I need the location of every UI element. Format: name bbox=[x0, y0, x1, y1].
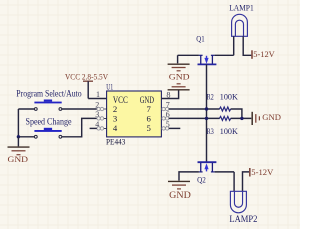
svg-text:R2: R2 bbox=[207, 92, 214, 101]
svg-text:U1: U1 bbox=[106, 82, 113, 91]
power port: 5-12V bottom bbox=[250, 167, 274, 177]
svg-text:5-12V: 5-12V bbox=[251, 167, 274, 177]
wire: R2 right to corner bbox=[231, 109, 242, 118]
svg-text:6: 6 bbox=[147, 113, 152, 123]
wire: Q1 drain to LAMP1 bbox=[215, 54, 234, 56]
wire: pin8 to earth bbox=[161, 90, 178, 98]
svg-text:GND: GND bbox=[169, 190, 191, 200]
svg-text:VCC 2.8-5.5V: VCC 2.8-5.5V bbox=[65, 72, 109, 82]
svg-text:100K: 100K bbox=[220, 127, 238, 136]
svg-text:LAMP1: LAMP1 bbox=[229, 3, 254, 13]
svg-text:3: 3 bbox=[113, 113, 117, 123]
svg-text:GND: GND bbox=[262, 113, 281, 122]
wire: Q2 drain to LAMP2 bbox=[215, 171, 235, 173]
pin 4 bubbles bbox=[97, 127, 100, 130]
wire: pin7 to R2 node bbox=[169, 108, 220, 110]
pin 5 stub bbox=[169, 127, 181, 129]
wire: LAMP2 left leg bbox=[233, 172, 235, 191]
wire: VCC to pin1 bbox=[88, 98, 107, 100]
svg-text:5: 5 bbox=[147, 123, 151, 133]
pushbutton S2 Speed Change bbox=[34, 128, 61, 138]
transistor Q1 (N-MOSFET) bbox=[198, 55, 217, 64]
wire: Q2 gate to earth bbox=[179, 172, 199, 181]
wire: Q1 gate to earth bbox=[178, 54, 199, 56]
svg-text:R3: R3 bbox=[207, 127, 214, 136]
node: R2 junction bbox=[205, 107, 208, 110]
svg-text:PE443: PE443 bbox=[106, 137, 125, 147]
pin 4 stub bbox=[90, 127, 97, 129]
ground: pin8 inverted earth bbox=[168, 84, 190, 90]
resistor R2 bbox=[219, 107, 230, 111]
wire: button1 right lead to pin2 bbox=[62, 108, 97, 110]
ground: bottom-left earth bbox=[8, 137, 30, 164]
wire: pin6 to R3 node bbox=[169, 117, 220, 119]
pin 7 bubbles bbox=[162, 107, 165, 110]
resistor R3 bbox=[219, 116, 230, 120]
power port: VCC 2.8-5.5V bbox=[65, 72, 109, 99]
power port: 5-12V top bbox=[252, 49, 276, 59]
node: right junction bbox=[240, 117, 243, 120]
transistor Q2 (N-MOSFET, flipped) bbox=[198, 162, 217, 172]
lamp LAMP1 bbox=[232, 14, 248, 36]
ground: top earth on Q1 gate bbox=[168, 55, 190, 71]
ground: right sideways earth bbox=[252, 112, 281, 125]
pin 3 bubbles bbox=[97, 117, 100, 120]
wire: button2 right lead with jog up to pin3 bbox=[62, 118, 97, 136]
svg-text:Q2: Q2 bbox=[197, 176, 206, 185]
pushbutton S1 Program Select/Auto bbox=[34, 100, 61, 111]
node: R3 junction bbox=[205, 117, 208, 120]
svg-text:5-12V: 5-12V bbox=[253, 49, 275, 59]
ground: bottom-middle earth bbox=[168, 181, 191, 199]
node: rail-GND junction bbox=[17, 135, 20, 138]
wire: R3 right to GND bbox=[231, 117, 252, 119]
svg-text:4: 4 bbox=[113, 123, 118, 133]
svg-text:GND: GND bbox=[169, 72, 190, 82]
svg-text:GND: GND bbox=[8, 155, 29, 164]
svg-text:100K: 100K bbox=[220, 92, 238, 101]
svg-text:Speed Change: Speed Change bbox=[26, 116, 72, 126]
wire: button2 left lead bbox=[18, 136, 34, 138]
svg-text:1: 1 bbox=[96, 90, 100, 99]
wire: Q1 source down to Q2 bbox=[206, 64, 208, 162]
pin 6 bubbles bbox=[162, 117, 165, 120]
lamp LAMP2 bbox=[230, 191, 246, 213]
IC U1 PE443 body bbox=[107, 91, 162, 137]
wire: button1 left lead bbox=[18, 108, 34, 110]
wire: LAMP1 right leg to 5-12V bbox=[243, 36, 251, 55]
wire: LAMP1 left leg bbox=[233, 36, 235, 55]
pin 2 bubbles bbox=[97, 107, 169, 130]
svg-text:LAMP2: LAMP2 bbox=[229, 214, 257, 224]
wire: button rail left vertical bbox=[17, 109, 19, 137]
svg-text:Program Select/Auto: Program Select/Auto bbox=[16, 88, 82, 98]
pin 5 bubbles bbox=[162, 127, 165, 130]
wire: LAMP2 right leg to 5-12V bbox=[243, 172, 250, 191]
svg-text:Q1: Q1 bbox=[196, 34, 204, 43]
